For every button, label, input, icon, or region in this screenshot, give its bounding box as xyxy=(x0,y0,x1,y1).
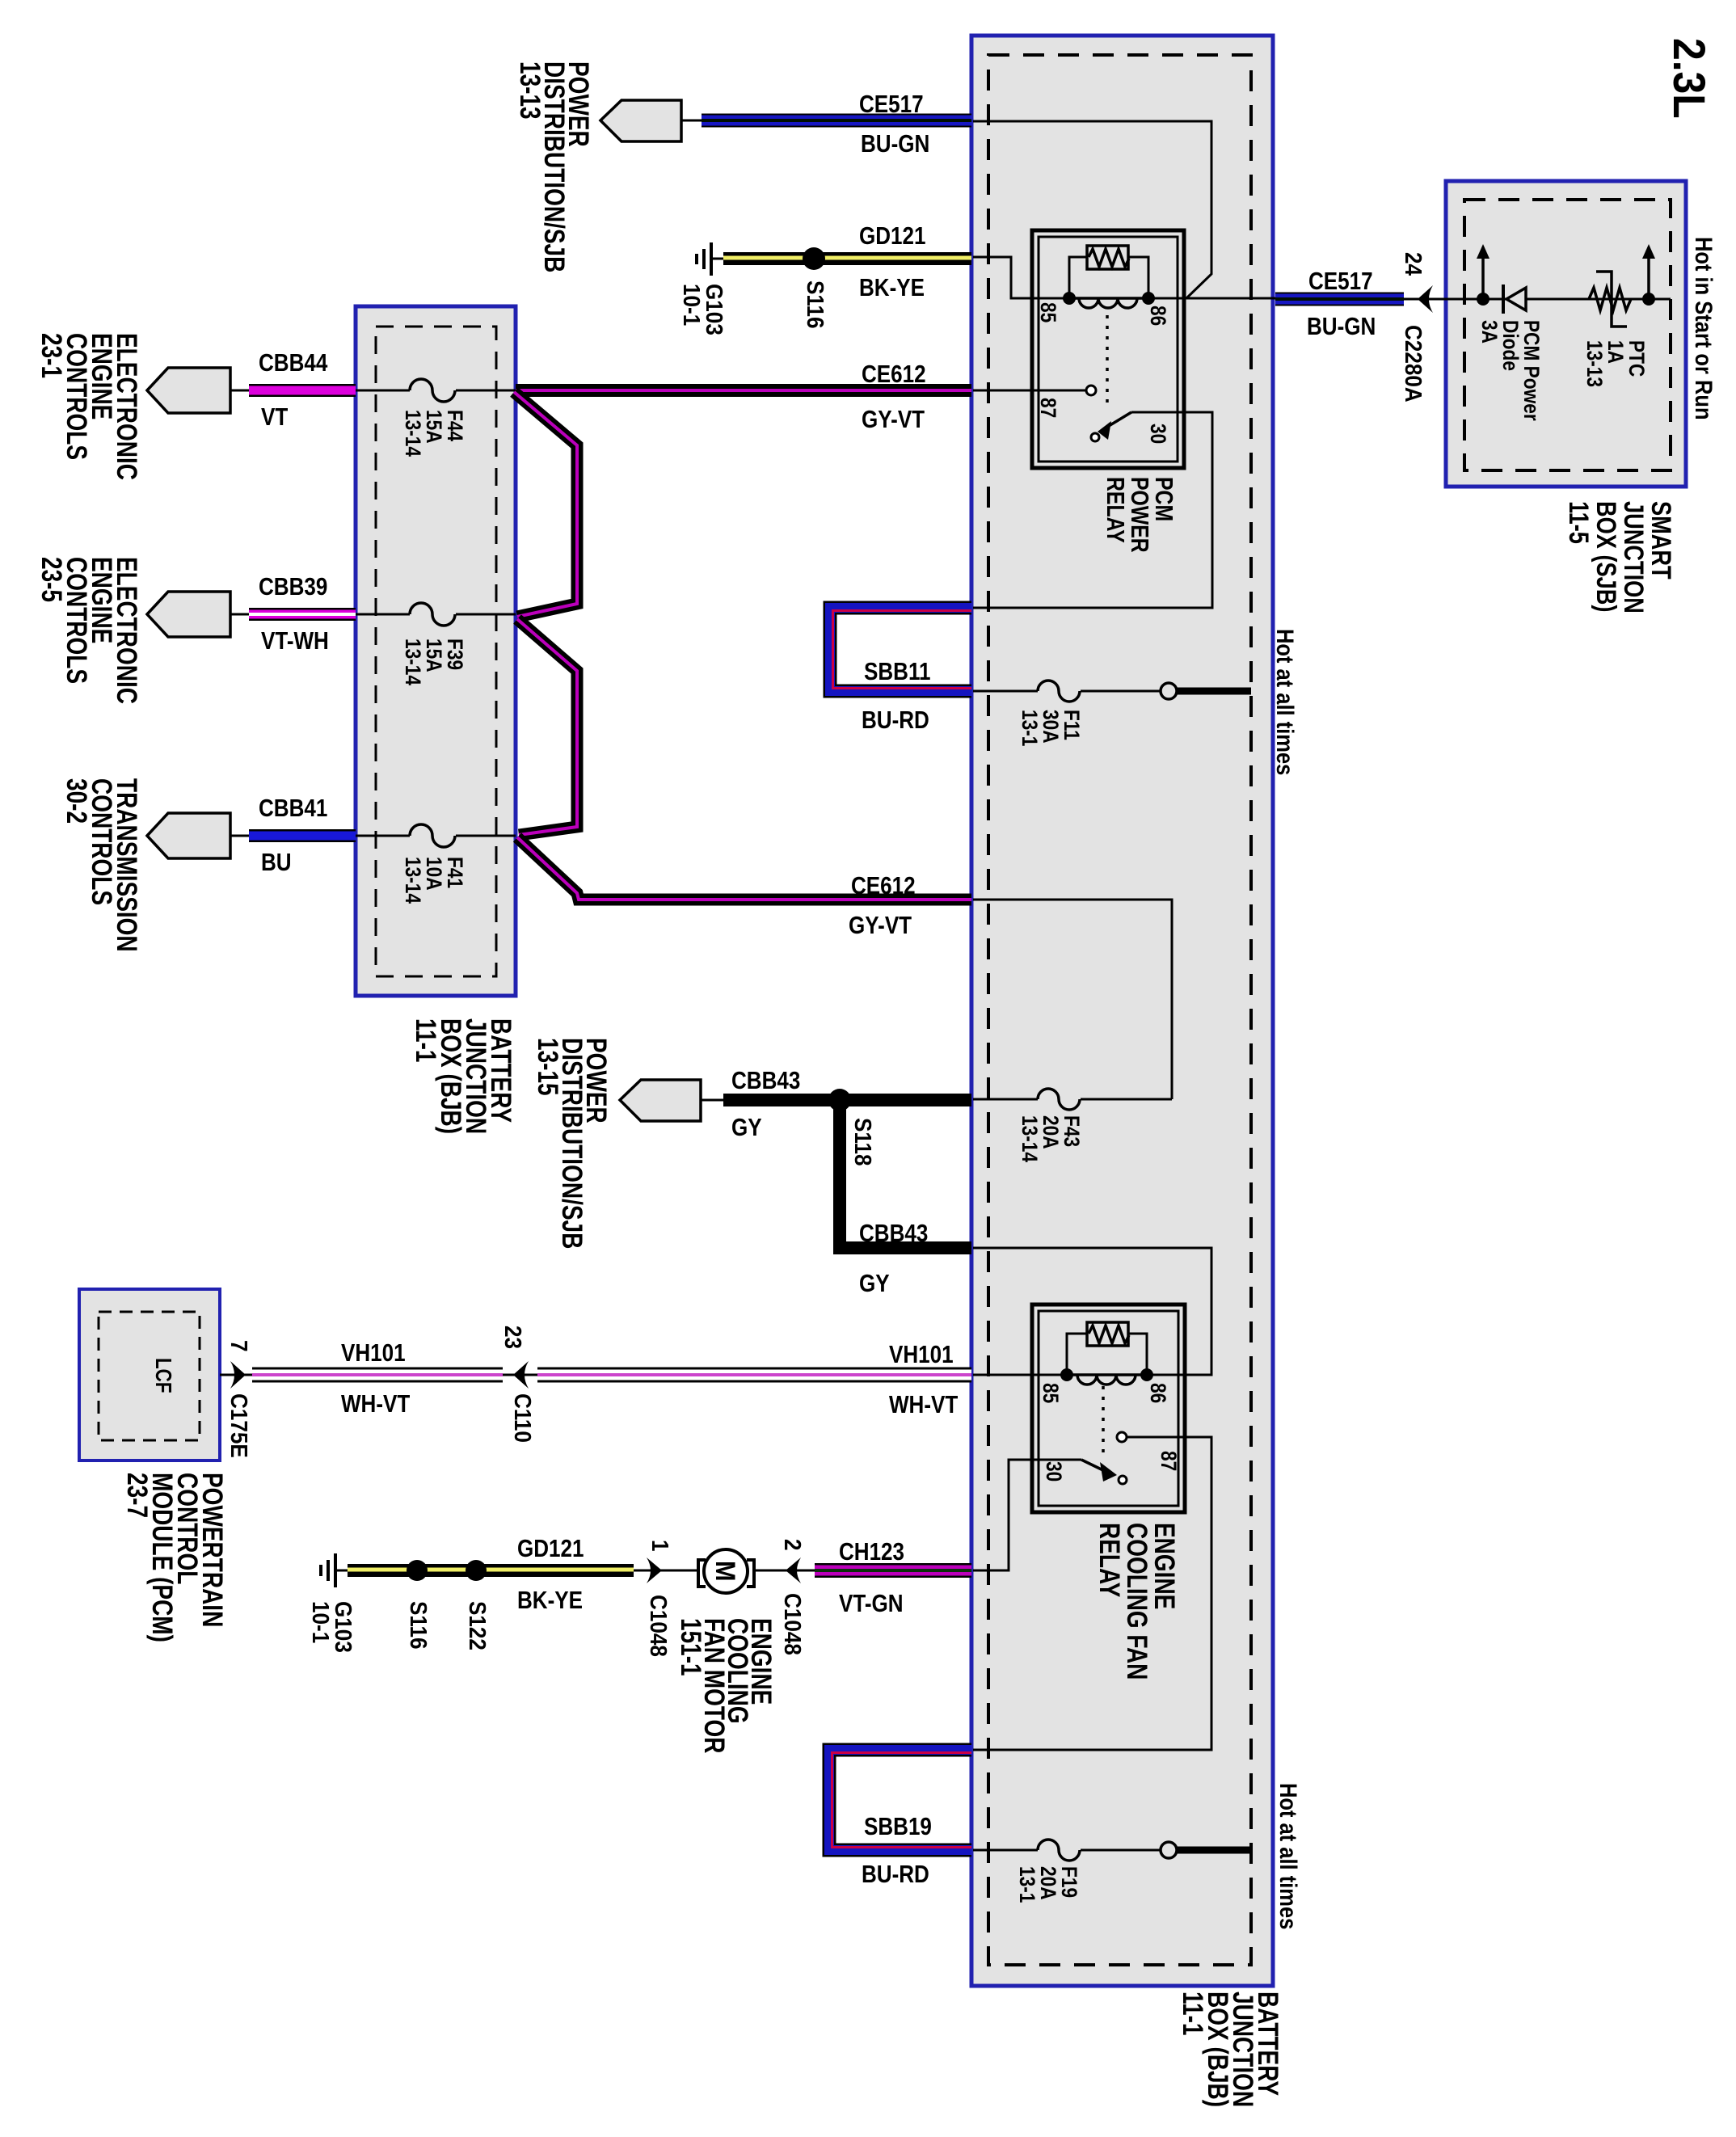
svg-text:GY-VT: GY-VT xyxy=(849,912,912,940)
svg-text:13-13: 13-13 xyxy=(1582,340,1607,387)
svg-text:151-1: 151-1 xyxy=(675,1618,707,1676)
svg-text:85: 85 xyxy=(1036,302,1060,322)
svg-text:SBB19: SBB19 xyxy=(864,1813,932,1841)
svg-text:GD121: GD121 xyxy=(859,222,926,251)
svg-text:CE612: CE612 xyxy=(851,872,916,900)
svg-text:10-1: 10-1 xyxy=(679,284,706,326)
svg-text:13-15: 13-15 xyxy=(532,1038,564,1096)
svg-text:BU: BU xyxy=(261,849,292,877)
svg-text:CBB39: CBB39 xyxy=(259,573,327,601)
svg-text:30-2: 30-2 xyxy=(61,778,93,824)
svg-text:3A: 3A xyxy=(1477,320,1502,344)
svg-text:VH101: VH101 xyxy=(341,1339,406,1368)
svg-text:SMART: SMART xyxy=(1645,501,1677,580)
svg-text:C110: C110 xyxy=(510,1393,537,1443)
svg-text:VT-GN: VT-GN xyxy=(839,1590,904,1618)
svg-text:CBB43: CBB43 xyxy=(859,1220,928,1248)
svg-text:Hot in Start or Run: Hot in Start or Run xyxy=(1691,237,1717,420)
svg-text:30: 30 xyxy=(1146,424,1170,444)
svg-text:M: M xyxy=(710,1561,741,1581)
svg-text:CH123: CH123 xyxy=(839,1538,904,1566)
svg-text:CBB41: CBB41 xyxy=(259,795,327,823)
svg-text:7: 7 xyxy=(226,1340,253,1352)
svg-text:WH-VT: WH-VT xyxy=(889,1391,959,1419)
svg-text:GY-VT: GY-VT xyxy=(862,406,925,434)
svg-text:CBB43: CBB43 xyxy=(731,1067,800,1095)
svg-text:BU-GN: BU-GN xyxy=(861,130,929,158)
svg-text:CE517: CE517 xyxy=(859,91,924,119)
svg-text:CE517: CE517 xyxy=(1308,268,1373,296)
svg-text:C1048: C1048 xyxy=(780,1593,807,1655)
svg-text:VT: VT xyxy=(261,403,289,432)
svg-text:C1048: C1048 xyxy=(646,1595,672,1657)
svg-text:SBB11: SBB11 xyxy=(864,658,931,686)
svg-text:23-5: 23-5 xyxy=(36,557,68,602)
svg-text:BU-RD: BU-RD xyxy=(862,1861,929,1889)
svg-text:RELAY: RELAY xyxy=(1093,1523,1126,1597)
svg-text:VH101: VH101 xyxy=(889,1341,954,1369)
svg-text:10-1: 10-1 xyxy=(308,1601,335,1643)
svg-text:86: 86 xyxy=(1146,1383,1170,1403)
svg-text:GY: GY xyxy=(859,1270,890,1298)
svg-text:Hot at all times: Hot at all times xyxy=(1275,1783,1302,1929)
svg-text:RELAY: RELAY xyxy=(1102,477,1129,543)
svg-text:23: 23 xyxy=(500,1326,527,1349)
svg-text:BU-RD: BU-RD xyxy=(862,706,929,735)
svg-text:2: 2 xyxy=(780,1539,807,1551)
svg-text:87: 87 xyxy=(1157,1451,1181,1471)
svg-text:Hot at all times: Hot at all times xyxy=(1272,629,1299,775)
svg-text:S122: S122 xyxy=(465,1601,491,1650)
svg-text:87: 87 xyxy=(1036,398,1060,418)
svg-text:11-1: 11-1 xyxy=(410,1018,442,1062)
svg-text:GD121: GD121 xyxy=(517,1535,584,1563)
svg-text:23-1: 23-1 xyxy=(36,333,68,378)
svg-text:13-14: 13-14 xyxy=(1018,1115,1042,1162)
svg-text:BU-GN: BU-GN xyxy=(1307,313,1376,341)
svg-text:13-13: 13-13 xyxy=(514,61,546,120)
svg-text:13-1: 13-1 xyxy=(1015,1866,1039,1903)
svg-text:BK-YE: BK-YE xyxy=(859,274,925,302)
svg-text:S118: S118 xyxy=(850,1118,877,1165)
svg-text:S116: S116 xyxy=(803,280,829,328)
svg-text:CBB44: CBB44 xyxy=(259,349,327,377)
svg-text:BK-YE: BK-YE xyxy=(517,1587,583,1615)
svg-text:VT-WH: VT-WH xyxy=(261,627,329,655)
svg-text:13-14: 13-14 xyxy=(401,410,425,457)
svg-text:85: 85 xyxy=(1039,1383,1063,1403)
svg-text:BOX (SJB): BOX (SJB) xyxy=(1591,501,1622,612)
svg-text:JUNCTION: JUNCTION xyxy=(1618,501,1650,613)
svg-text:WH-VT: WH-VT xyxy=(341,1390,411,1418)
svg-text:CE612: CE612 xyxy=(862,360,926,389)
svg-text:1: 1 xyxy=(647,1540,674,1552)
svg-text:2.3L: 2.3L xyxy=(1663,38,1713,119)
svg-text:GY: GY xyxy=(731,1114,762,1142)
svg-text:11-1: 11-1 xyxy=(1177,1992,1209,2035)
svg-text:86: 86 xyxy=(1146,306,1170,326)
svg-text:24: 24 xyxy=(1401,252,1427,276)
svg-text:30: 30 xyxy=(1042,1461,1066,1482)
svg-text:LCF: LCF xyxy=(150,1358,175,1393)
svg-text:11-5: 11-5 xyxy=(1563,501,1595,544)
svg-text:23-7: 23-7 xyxy=(121,1473,154,1518)
svg-text:C175E: C175E xyxy=(226,1393,253,1458)
svg-text:13-14: 13-14 xyxy=(401,857,425,904)
svg-text:S116: S116 xyxy=(406,1601,432,1649)
svg-text:13-14: 13-14 xyxy=(401,639,425,685)
svg-text:C2280A: C2280A xyxy=(1401,325,1427,403)
svg-text:13-1: 13-1 xyxy=(1018,710,1042,746)
